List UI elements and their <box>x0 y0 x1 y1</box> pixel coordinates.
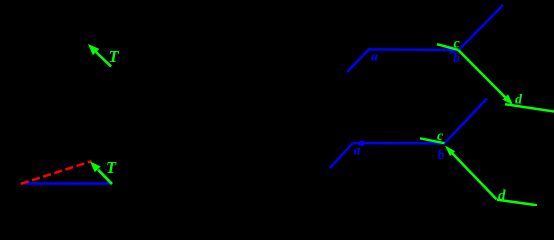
rope segment rising to a (top-right figure) <box>347 49 369 72</box>
svg-text:c: c <box>437 129 444 144</box>
tension arrow T (top-left figure) <box>88 44 111 67</box>
svg-text:d: d <box>498 188 506 204</box>
green segment left of c (top-right figure) <box>437 44 459 50</box>
blue ray from b up-right (top-right figure) <box>459 5 504 50</box>
rope segment rising to a (bottom-right figure) <box>330 143 353 168</box>
blue arrowhead at b pointing right (top-right figure) <box>450 47 459 54</box>
svg-text:b: b <box>438 147 445 162</box>
green arrowhead at b pointing up-left (bottom-right figure) <box>445 146 455 157</box>
green shallow line after d (bottom-right figure) <box>497 200 537 206</box>
svg-text:T: T <box>106 158 117 177</box>
green line b to d (top-right figure) <box>459 50 507 98</box>
svg-text:d: d <box>515 93 523 108</box>
green segment left of c (bottom-right figure) <box>420 138 445 143</box>
blue ray from b up-right (bottom-right figure) <box>445 99 488 144</box>
green shallow line after d (top-right figure) <box>505 104 554 111</box>
green line b to d (bottom-right figure) <box>452 153 497 200</box>
horizontal rope a to b (top-right figure) <box>368 48 452 51</box>
svg-text:b: b <box>453 50 460 65</box>
horizontal rope a to b (bottom-right figure) <box>353 142 445 145</box>
svg-text:a: a <box>354 144 361 159</box>
dashed incline line (bottom-left figure) <box>21 161 92 184</box>
tension arrow T (bottom-left figure) <box>90 162 112 185</box>
blue arrowhead at a pointing left (bottom-right figure) <box>355 140 364 146</box>
svg-text:a: a <box>371 50 378 65</box>
ground line (bottom-left figure) <box>21 182 112 184</box>
svg-text:T: T <box>109 47 120 66</box>
green arrowhead at d (top-right figure) <box>503 94 513 105</box>
